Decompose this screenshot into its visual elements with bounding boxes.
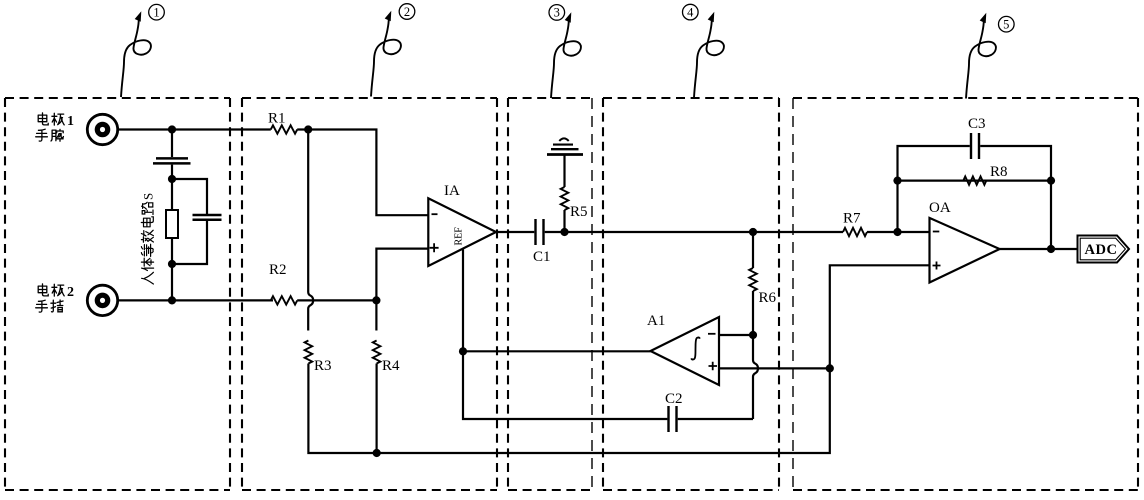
- wire node up to IA+ input: [376, 249, 428, 301]
- wire node to A1 output (apex): [463, 350, 651, 352]
- wire node down and right to C2: [463, 351, 667, 419]
- svg-text:REF: REF: [454, 227, 465, 246]
- resistor body (box style): [166, 210, 178, 238]
- svg-text:1: 1: [153, 6, 159, 20]
- svg-text:1: 1: [67, 114, 74, 129]
- node junction at (172,264): [168, 260, 176, 268]
- node junction at (897.5,232): [893, 228, 901, 236]
- op-amp A1 (integrator, points left): [651, 317, 720, 385]
- wire node down to R6: [752, 232, 754, 268]
- region box 5 (output amplifier): [793, 97, 1138, 99]
- IA minus pin mark: [432, 213, 438, 215]
- wire R8 row: [898, 180, 1052, 182]
- wire IA REF pin down to node: [462, 250, 464, 352]
- wire C3 right to feedback riser right: [980, 146, 1051, 249]
- svg-text:C3: C3: [968, 116, 986, 132]
- wire R4 bottom to common rail: [376, 364, 378, 454]
- callout arrow 1: [121, 19, 151, 98]
- wire left branch down to body resistor: [171, 179, 173, 210]
- wire C2 right to A1 minus node with hop over plus wire: [753, 335, 758, 419]
- wire electrode2 to R2: [119, 299, 273, 301]
- resistor R2: [271, 296, 297, 304]
- OA plus pin mark: [933, 262, 941, 270]
- node junction at (172,129.5): [168, 125, 176, 133]
- region box 4 (integrator feedback): [603, 97, 779, 99]
- resistor R4: [373, 341, 381, 364]
- svg-text:R4: R4: [382, 358, 400, 374]
- svg-text:S: S: [140, 193, 155, 200]
- wire node up to R5: [563, 210, 565, 232]
- capacitor body skin (series) plates: [153, 158, 191, 163]
- ground symbol: [547, 153, 583, 156]
- svg-text:C1: C1: [533, 249, 551, 265]
- node junction at (753,335): [749, 331, 757, 339]
- wire R3 bottom to common rail: [308, 364, 376, 454]
- wire C1 to R7 (main rail y=232): [545, 231, 843, 233]
- OA minus pin mark: [933, 231, 940, 233]
- op-amp IA (instrumentation amplifier): [428, 198, 496, 266]
- node junction at (564.5,232): [560, 228, 568, 236]
- resistor R6: [749, 268, 757, 291]
- op-amp OA: [930, 218, 1000, 283]
- wire body resistor to bottom node: [171, 238, 173, 264]
- svg-text:5: 5: [1003, 18, 1009, 32]
- wire OA output to ADC: [1000, 248, 1077, 250]
- node junction at (172,179): [168, 175, 176, 183]
- svg-text:C2: C2: [665, 391, 683, 407]
- node junction at (376.4,300.4): [372, 296, 380, 304]
- callout label (3): [549, 5, 565, 21]
- capacitor C1 plates: [536, 219, 544, 245]
- A1 minus pin mark: [708, 333, 716, 335]
- node junction at (1051,180.6): [1047, 177, 1055, 185]
- wire capacitor to split node: [171, 165, 173, 179]
- resistor R7: [843, 228, 867, 236]
- node junction at (897.5,180.6): [893, 177, 901, 185]
- region box 2 (instrumentation amp): [242, 97, 497, 99]
- A1 plus pin mark: [709, 362, 718, 371]
- node junction at (463,351.3): [459, 347, 467, 355]
- wire split to right branch: [172, 179, 207, 214]
- capacitor C2 plates: [669, 406, 677, 432]
- node junction at (753,232): [749, 228, 757, 236]
- svg-text:R8: R8: [990, 164, 1008, 180]
- region box 3 (high-pass filter): [508, 97, 592, 99]
- capacitor body (parallel) plates: [193, 215, 222, 220]
- resistor R5: [561, 187, 569, 210]
- wire A1 plus input to riser: [719, 367, 830, 369]
- IA plus pin mark: [430, 243, 439, 252]
- node junction at (172,300.4): [168, 296, 176, 304]
- node junction at (829.8,368.4): [826, 364, 834, 372]
- electrode E2 label 电极2 手指 (electrode 2, finger): [38, 284, 48, 296]
- svg-text:2: 2: [67, 285, 74, 300]
- region box 1 (electrodes / body): [5, 97, 230, 99]
- callout arrow 5: [966, 20, 996, 99]
- wire node down to R4: [375, 300, 377, 330]
- node junction at (308.2,129.5): [304, 125, 312, 133]
- label 人体等效电路S (body equivalent circuit S), rotated: [140, 193, 155, 284]
- wire common rail y=453 to riser x=829.8, up to OA+ input: [377, 265, 930, 453]
- svg-text:R2: R2: [269, 262, 287, 278]
- wire R2 to node at x=376.4: [297, 299, 376, 301]
- svg-text:A1: A1: [647, 313, 665, 329]
- svg-text:R6: R6: [759, 290, 777, 306]
- A1 integral symbol: [691, 337, 699, 359]
- wire vertical R1-node down to R3 with hop over R2 wire: [308, 130, 313, 331]
- svg-text:OA: OA: [929, 200, 951, 216]
- callout label (1): [149, 4, 165, 20]
- resistor R1: [271, 125, 297, 133]
- resistor R8: [963, 176, 986, 184]
- wire feedback riser left x=897.5: [898, 146, 970, 232]
- wire A1 minus input: [719, 334, 753, 336]
- node junction at (1051,249): [1047, 245, 1055, 253]
- wire R7 to OA minus input: [867, 231, 930, 233]
- wire R1 to corner and IA- input: [297, 130, 428, 216]
- svg-text:R1: R1: [268, 111, 286, 127]
- callout label (4): [683, 4, 699, 20]
- callout arrow 4: [694, 19, 724, 98]
- svg-text:IA: IA: [444, 183, 460, 199]
- svg-text:ADC: ADC: [1085, 242, 1118, 258]
- wire down to body capacitor: [171, 130, 173, 158]
- electrode E2 (finger) terminal: [87, 285, 117, 315]
- wire R5 top to ground: [563, 155, 565, 187]
- callout arrow 3: [551, 20, 581, 99]
- svg-text:R7: R7: [843, 211, 861, 227]
- wire IA output to C1: [496, 231, 534, 233]
- wire R6 to A1 minus node: [752, 291, 754, 335]
- svg-text:3: 3: [554, 6, 560, 20]
- callout label (5): [999, 16, 1015, 32]
- capacitor C3 plates: [971, 133, 979, 159]
- ADC output flag: [1078, 236, 1130, 263]
- wire C2 right plate to riser: [678, 418, 753, 420]
- wire body circuit to electrode2 rail: [171, 264, 173, 300]
- electrode E1 label 电极1 手腕 (electrode 1, wrist): [38, 113, 48, 125]
- node junction at (376.7,453): [373, 449, 381, 457]
- callout arrow 2: [371, 18, 401, 97]
- electrode E1 (wrist) terminal: [87, 114, 117, 144]
- wire electrode1 to R1 (top rail y=129.5): [118, 128, 271, 130]
- callout label (2): [399, 4, 415, 20]
- svg-text:4: 4: [687, 5, 694, 19]
- wire parallel cap to bottom join: [172, 220, 207, 264]
- svg-text:R5: R5: [570, 204, 588, 220]
- svg-text:R3: R3: [314, 358, 332, 374]
- resistor R3: [305, 341, 313, 364]
- svg-text:2: 2: [404, 5, 410, 19]
